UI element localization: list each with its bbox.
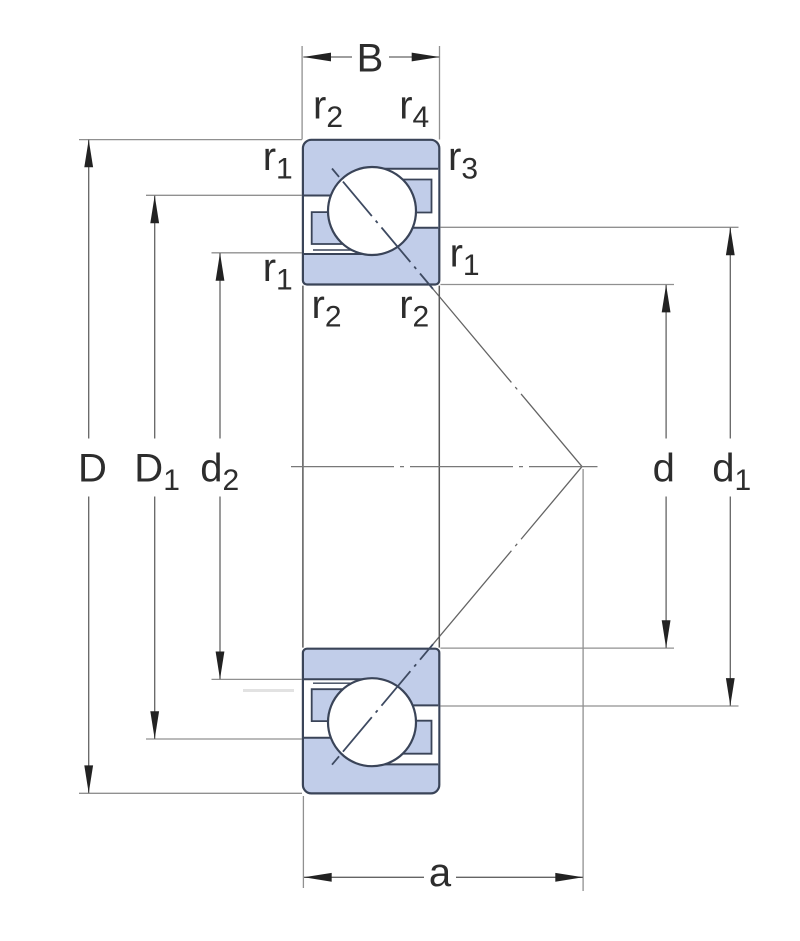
B extension line right — [439, 46, 441, 140]
a arrow right — [555, 873, 583, 882]
svg-text:d1: d1 — [712, 446, 751, 497]
horizontal centerline dash-dot — [291, 466, 598, 468]
svg-text:r2: r2 — [312, 283, 342, 334]
a extension line left — [302, 796, 304, 888]
D1 arrow bottom — [150, 711, 159, 739]
d2 dimension line — [219, 253, 221, 679]
svg-text:r4: r4 — [399, 84, 429, 135]
d arrow bottom — [662, 620, 671, 648]
svg-text:d: d — [653, 446, 675, 490]
svg-text:r2: r2 — [313, 84, 343, 135]
B arrow left — [303, 53, 331, 62]
d1 arrow bottom — [726, 678, 735, 706]
d extension line bottom — [440, 647, 674, 649]
D extension line bottom — [79, 792, 302, 794]
svg-text:r1: r1 — [450, 232, 480, 283]
svg-text:D1: D1 — [134, 446, 180, 497]
svg-text:r2: r2 — [399, 283, 429, 334]
d2 extension line bottom — [212, 678, 303, 680]
B arrow right — [412, 53, 440, 62]
svg-text:r1: r1 — [263, 246, 293, 297]
D1 extension line bottom — [146, 738, 302, 740]
d2 arrow bottom — [216, 652, 225, 680]
svg-text:r3: r3 — [448, 135, 478, 186]
d2 extension line top — [212, 252, 303, 254]
d1 arrow top — [726, 228, 735, 256]
D arrow bottom — [84, 765, 93, 793]
B extension line left — [301, 46, 303, 140]
faint ghost line — [243, 689, 294, 692]
a arrow left — [304, 873, 332, 882]
svg-text:r1: r1 — [263, 135, 293, 186]
D extension line top — [79, 139, 302, 141]
svg-text:B: B — [357, 37, 384, 81]
d arrow top — [662, 285, 671, 313]
bore cylinder line left — [302, 286, 304, 648]
d1 dimension line — [729, 228, 731, 706]
D1 extension line top — [146, 194, 302, 196]
a dimension line — [304, 876, 583, 878]
D1 arrow top — [150, 196, 159, 224]
svg-text:d2: d2 — [200, 446, 239, 497]
d dimension line — [665, 285, 667, 648]
B dimension line — [303, 56, 439, 58]
bore cylinder line right — [438, 286, 440, 648]
d extension line top — [440, 284, 674, 286]
d2 arrow top — [216, 253, 225, 281]
bottom bearing section (mirror) — [303, 467, 582, 794]
d1 extension line bottom — [440, 705, 738, 707]
D dimension line — [88, 140, 90, 794]
d1 extension line top — [440, 226, 738, 228]
a extension line right (apex vertical) — [582, 469, 584, 891]
svg-text:D: D — [78, 446, 107, 490]
top bearing section — [303, 140, 582, 467]
svg-text:a: a — [429, 851, 452, 895]
D arrow top — [84, 140, 93, 168]
D1 dimension line — [154, 196, 156, 740]
